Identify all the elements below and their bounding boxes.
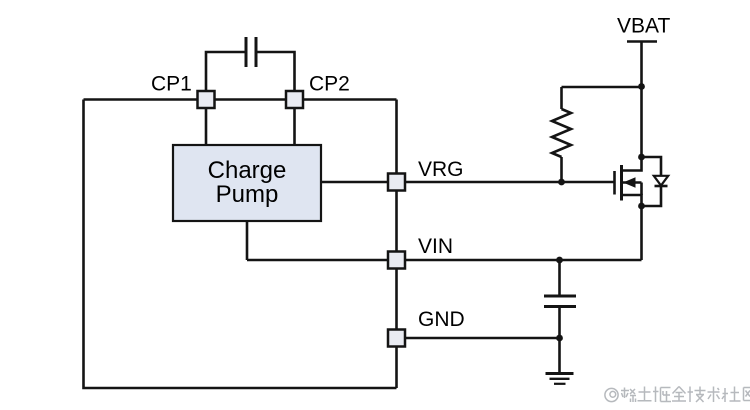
svg-text:GND: GND [418, 308, 465, 331]
svg-text:VBAT: VBAT [617, 15, 670, 38]
svg-text:VIN: VIN [418, 235, 453, 258]
svg-text:Pump: Pump [216, 181, 279, 208]
svg-text:CP1: CP1 [151, 73, 192, 96]
svg-text:VRG: VRG [418, 158, 464, 181]
svg-text:Charge: Charge [208, 157, 287, 184]
svg-text:CP2: CP2 [309, 73, 350, 96]
